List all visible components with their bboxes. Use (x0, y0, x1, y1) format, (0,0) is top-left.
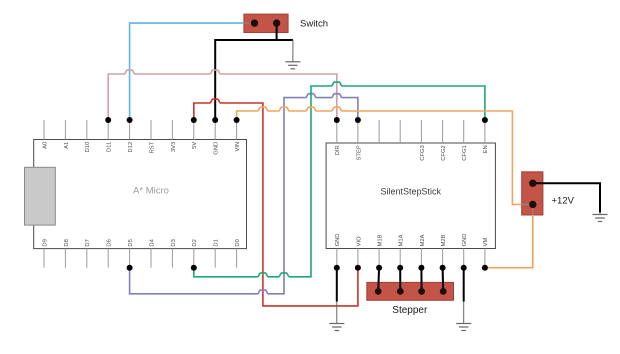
J1 pin 1 (529, 180, 536, 187)
U1 bottom pin leads (44, 249, 237, 268)
svg-text:D9: D9 (42, 239, 48, 246)
wire red 5V to VIO (194, 99, 358, 306)
svg-text:D7: D7 (85, 239, 91, 246)
wire black switch branch to ground (277, 39, 293, 41)
svg-text:D3: D3 (171, 239, 177, 246)
svg-text:GND: GND (214, 142, 220, 155)
junction D2 (191, 265, 197, 271)
svg-text:GND: GND (335, 234, 341, 247)
svg-text:3V3: 3V3 (171, 142, 177, 152)
U2 bottom pin leads (337, 249, 485, 268)
U1 top pin leads (44, 120, 237, 140)
IC U1 A* Micro body (34, 140, 247, 249)
U1 bottom pin labels D9 D8 D7 D6 D5 D4 D3 D2 D1 D0 (42, 238, 241, 246)
svg-text:Switch: Switch (300, 19, 328, 30)
U1 USB connector block (25, 167, 56, 225)
J1 pin stub (522, 203, 533, 205)
junction M2B (440, 265, 446, 271)
switch S1 body (244, 14, 288, 32)
junction GND1 (334, 265, 340, 271)
svg-text:Stepper: Stepper (392, 305, 428, 316)
junction DIR (334, 117, 340, 123)
wire black U2 GND1 to ground (336, 268, 338, 302)
svg-text:STEP: STEP (356, 145, 362, 160)
wire black M1A to stepper (399, 268, 401, 292)
junction 5V (191, 117, 197, 123)
U1 top pin labels A0 A1 D10 D11 D12 RST 3V3 5V GND VIN (42, 141, 241, 154)
svg-text:VIO: VIO (356, 236, 362, 246)
wire black M2B to stepper (442, 268, 445, 292)
svg-text:D8: D8 (64, 239, 70, 246)
junction D11 (105, 117, 111, 123)
svg-text:D10: D10 (85, 142, 91, 153)
junction VM (482, 265, 488, 271)
svg-text:D12: D12 (128, 142, 134, 153)
svg-text:D1: D1 (214, 239, 220, 246)
svg-text:DIR: DIR (335, 145, 341, 155)
wire black M2A to stepper (420, 268, 422, 292)
svg-text:M1A: M1A (399, 234, 405, 246)
wire pink D11 to DIR (108, 70, 337, 120)
J1 pin 2 (529, 201, 536, 208)
svg-text:D4: D4 (149, 238, 155, 246)
junction VIN (234, 117, 240, 123)
junction M2A (418, 265, 424, 271)
power connector J1 +12V body (522, 172, 543, 215)
ground symbol GND below driver left (336, 302, 338, 324)
svg-text:A1: A1 (64, 142, 70, 149)
svg-text:A* Micro: A* Micro (133, 186, 169, 197)
svg-text:M2A: M2A (420, 234, 426, 246)
wire orange A* VIN to +12V (237, 107, 522, 204)
svg-text:CFG3: CFG3 (420, 145, 426, 160)
ground symbol GND near switch (292, 40, 294, 62)
svg-text:D5: D5 (128, 239, 134, 246)
svg-text:VM: VM (483, 238, 489, 247)
svg-text:RST: RST (149, 141, 155, 153)
junction EN (482, 117, 488, 123)
wire black +12V pin1 to ground (533, 183, 600, 212)
junction VIO (355, 265, 361, 271)
S1 pin stubs (244, 22, 255, 24)
junction D12 (127, 117, 133, 123)
U2 bottom pin labels GND VIO M1B M1A M2A M2B GND VM (335, 234, 489, 247)
svg-text:VIN: VIN (235, 142, 241, 152)
svg-text:D0: D0 (235, 239, 241, 246)
svg-text:EN: EN (483, 145, 489, 153)
ground symbol GND right of +12V (599, 213, 601, 215)
J2 pin 3 (418, 288, 425, 295)
J2 pin 4 (440, 288, 447, 295)
wire green D2 to EN (194, 82, 485, 277)
wire black switch pin2 to A* GND (215, 23, 276, 120)
junction M1B (376, 265, 382, 271)
S1 pin 1 (251, 19, 258, 26)
svg-text:A0: A0 (42, 142, 48, 149)
junction STEP (355, 117, 361, 123)
ground symbol GND below driver right (463, 302, 465, 324)
svg-text:5V: 5V (192, 142, 198, 149)
junction D5 (127, 265, 133, 271)
svg-text:M2B: M2B (441, 234, 447, 246)
svg-text:CFG1: CFG1 (462, 145, 468, 160)
svg-text:SilentStepStick: SilentStepStick (381, 187, 442, 197)
U2 top pin leads (337, 120, 485, 143)
junction GND2 (461, 265, 467, 271)
wire purple D5 to STEP (130, 94, 358, 294)
svg-text:D11: D11 (107, 142, 113, 152)
svg-text:D6: D6 (107, 239, 113, 246)
svg-text:CFG2: CFG2 (441, 145, 447, 160)
wire black M1B to stepper (377, 268, 380, 292)
junction GND (212, 117, 218, 123)
S1 pin 2 (273, 19, 280, 26)
IC U2 SilentStepStick body (326, 143, 495, 249)
svg-text:+12V: +12V (552, 196, 575, 207)
junction M1A (397, 265, 403, 271)
U2 top pin labels DIR STEP CFG3 CFG2 CFG1 EN (335, 145, 489, 161)
svg-text:D2: D2 (192, 239, 198, 246)
stepper motor connector J2 body (367, 282, 454, 300)
wire blue switch to D12 (130, 23, 244, 120)
svg-text:M1B: M1B (378, 234, 384, 246)
svg-text:GND: GND (462, 234, 468, 247)
wire orange +12V to VM (485, 215, 533, 268)
J2 pin 2 (397, 288, 404, 295)
wire black U2 GND2 to ground (463, 268, 465, 302)
J2 pin 1 (375, 288, 382, 295)
